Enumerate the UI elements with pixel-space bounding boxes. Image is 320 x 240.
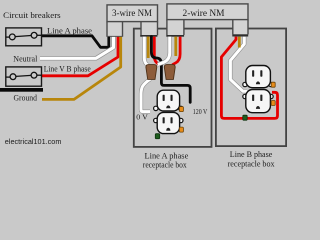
svg-text:Line V B phase: Line V B phase [44,64,91,74]
svg-text:0 V: 0 V [136,113,148,122]
svg-text:receptacle box: receptacle box [143,160,187,170]
svg-text:Neutral: Neutral [13,53,37,63]
svg-text:electrical101.com: electrical101.com [5,137,62,146]
svg-text:120 V: 120 V [193,107,208,116]
svg-text:3-wire NM: 3-wire NM [112,9,153,19]
svg-text:Ground: Ground [14,93,38,103]
svg-text:Circuit breakers: Circuit breakers [3,10,61,20]
svg-text:receptacle box: receptacle box [228,159,276,169]
svg-text:2-wire NM: 2-wire NM [183,9,226,19]
svg-text:Line A phase: Line A phase [47,25,92,35]
